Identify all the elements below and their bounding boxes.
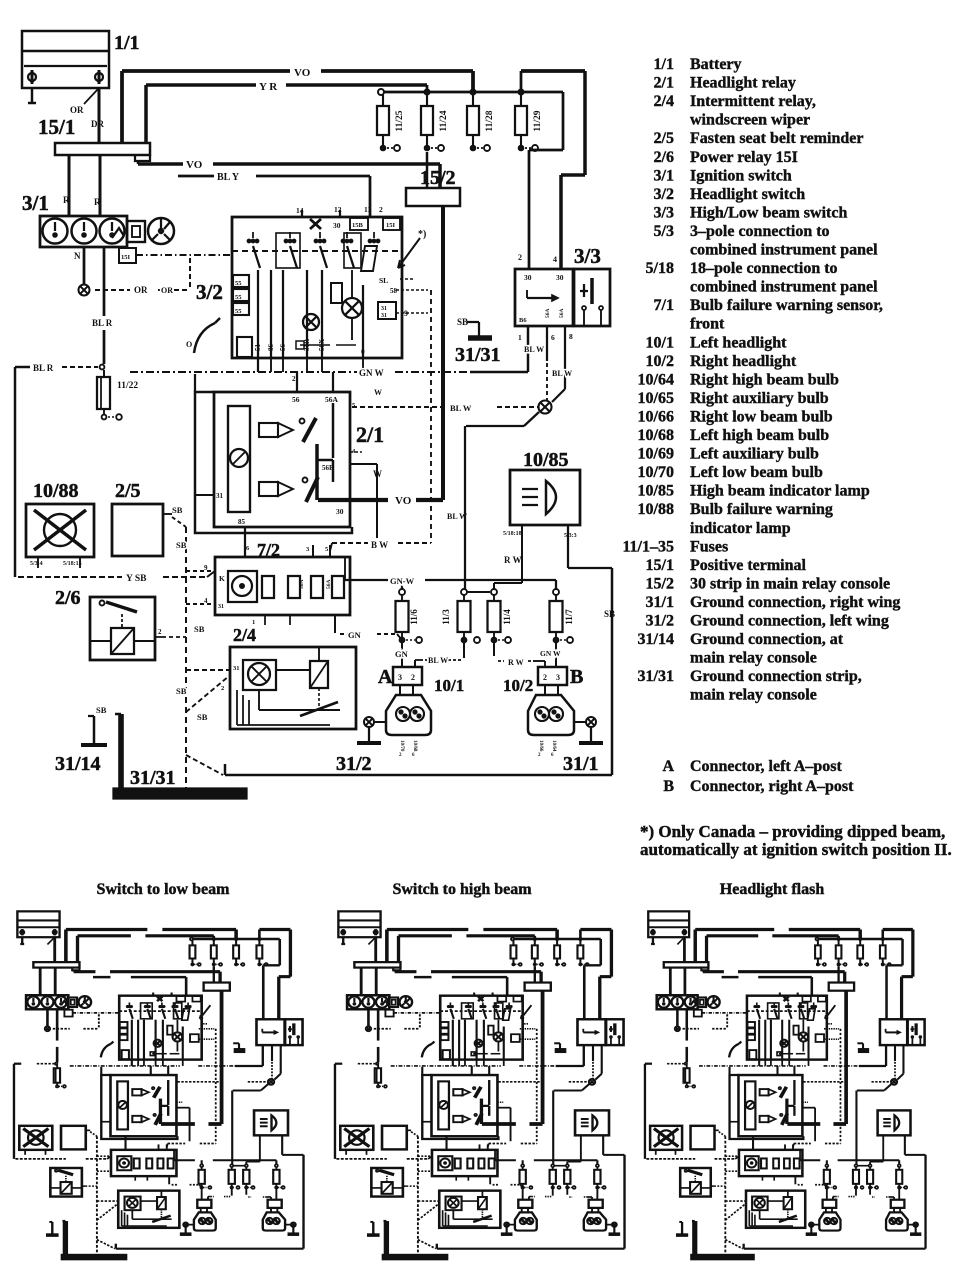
svg-text:GN W: GN W — [359, 368, 384, 378]
svg-text:5/3: 5/3 — [654, 223, 674, 240]
svg-text:Battery: Battery — [690, 56, 742, 73]
svg-text:VO: VO — [186, 159, 203, 171]
svg-text:2/5: 2/5 — [654, 130, 674, 147]
svg-text:High/Low beam switch: High/Low beam switch — [690, 204, 847, 221]
svg-text:31: 31 — [381, 313, 387, 319]
svg-text:BL R: BL R — [33, 363, 54, 373]
svg-text:SL: SL — [379, 276, 388, 285]
svg-text:indicator lamp: indicator lamp — [690, 520, 791, 537]
svg-text:11/6: 11/6 — [409, 609, 419, 625]
svg-text:Connector, right A–post: Connector, right A–post — [690, 778, 854, 795]
svg-text:3/3: 3/3 — [654, 204, 674, 221]
svg-text:11/24: 11/24 — [439, 110, 449, 131]
svg-text:GN-W: GN-W — [390, 576, 415, 586]
svg-text:main relay console: main relay console — [690, 650, 817, 667]
svg-text:Fasten seat belt reminder: Fasten seat belt reminder — [690, 130, 863, 147]
svg-text:56A: 56A — [299, 580, 305, 590]
svg-text:10/68: 10/68 — [412, 740, 417, 752]
svg-text:Ground connection, right wing: Ground connection, right wing — [690, 594, 900, 611]
svg-text:Bulb failure warning sensor,: Bulb failure warning sensor, — [690, 297, 883, 314]
svg-text:Headlight flash: Headlight flash — [720, 881, 825, 898]
svg-text:Connector, left A–post: Connector, left A–post — [690, 758, 843, 775]
svg-text:56A: 56A — [326, 580, 332, 590]
svg-text:main relay console: main relay console — [690, 687, 817, 704]
svg-text:B6: B6 — [519, 317, 527, 324]
svg-text:10/1: 10/1 — [434, 676, 464, 695]
svg-text:6: 6 — [551, 333, 555, 342]
svg-text:Left low beam bulb: Left low beam bulb — [690, 464, 823, 481]
svg-text:SB: SB — [197, 712, 208, 722]
svg-text:automatically at ignition swit: automatically at ignition switch positio… — [640, 840, 952, 859]
svg-text:5: 5 — [325, 546, 329, 553]
svg-text:Switch to high beam: Switch to high beam — [392, 881, 532, 898]
svg-text:15/2: 15/2 — [646, 575, 674, 592]
svg-text:31/2: 31/2 — [336, 753, 372, 775]
svg-text:30: 30 — [336, 507, 344, 516]
svg-text:10/1: 10/1 — [646, 334, 674, 351]
svg-text:55: 55 — [235, 280, 242, 287]
svg-text:Y SB: Y SB — [126, 574, 147, 584]
svg-text:Ground connection strip,: Ground connection strip, — [690, 668, 862, 685]
svg-text:2: 2 — [538, 753, 541, 758]
svg-text:10/65: 10/65 — [638, 390, 674, 407]
svg-text:2/1: 2/1 — [356, 422, 384, 447]
svg-text:3/1: 3/1 — [654, 167, 674, 184]
svg-text:SB: SB — [176, 540, 187, 550]
svg-text:R W: R W — [508, 658, 524, 667]
svg-text:front: front — [690, 316, 725, 333]
svg-text:Intermittent relay,: Intermittent relay, — [690, 93, 816, 110]
svg-text:8: 8 — [569, 332, 573, 341]
svg-text:BL W: BL W — [447, 512, 467, 521]
svg-text:R: R — [63, 195, 70, 205]
svg-text:4: 4 — [553, 255, 557, 264]
svg-text:1: 1 — [252, 619, 255, 626]
svg-text:11/1–35: 11/1–35 — [622, 538, 674, 555]
svg-text:10/66: 10/66 — [538, 740, 543, 752]
svg-text:15/2: 15/2 — [420, 167, 456, 189]
svg-text:A: A — [662, 758, 674, 775]
svg-text:10/70: 10/70 — [399, 740, 404, 752]
svg-text:SB: SB — [96, 705, 107, 715]
svg-text:BL W: BL W — [524, 345, 544, 354]
svg-text:O: O — [186, 340, 192, 349]
svg-text:10/69: 10/69 — [638, 446, 674, 463]
svg-text:Power relay 15I: Power relay 15I — [690, 149, 798, 166]
svg-text:31/31: 31/31 — [638, 668, 674, 685]
svg-text:Ground connection, left wing: Ground connection, left wing — [690, 613, 889, 630]
svg-text:1/1: 1/1 — [114, 32, 140, 54]
svg-text:B W: B W — [371, 540, 388, 550]
svg-text:18–pole connection to: 18–pole connection to — [690, 260, 838, 277]
svg-text:10/70: 10/70 — [638, 464, 674, 481]
svg-text:6: 6 — [551, 753, 554, 758]
svg-text:2/1: 2/1 — [654, 75, 674, 92]
svg-text:15/1: 15/1 — [646, 557, 674, 574]
svg-text:56A: 56A — [559, 309, 565, 319]
svg-text:5/3:4: 5/3:4 — [30, 561, 43, 567]
svg-text:31/2: 31/2 — [646, 613, 674, 630]
svg-text:Right low beam bulb: Right low beam bulb — [690, 409, 833, 426]
svg-text:GN: GN — [348, 630, 362, 640]
svg-text:K: K — [219, 574, 225, 583]
svg-text:3/2: 3/2 — [654, 186, 674, 203]
svg-text:10/88: 10/88 — [33, 480, 79, 502]
svg-text:GN: GN — [395, 649, 409, 659]
svg-text:BL Y: BL Y — [217, 172, 240, 183]
svg-text:10/64: 10/64 — [638, 371, 674, 388]
svg-text:2/5: 2/5 — [115, 480, 141, 502]
svg-text:2: 2 — [292, 375, 296, 383]
svg-text:R: R — [94, 197, 101, 207]
svg-text:5/18:18: 5/18:18 — [503, 531, 522, 537]
svg-text:31: 31 — [381, 306, 387, 312]
svg-text:7/2: 7/2 — [257, 540, 280, 560]
svg-text:10/64: 10/64 — [551, 740, 556, 752]
svg-text:OR: OR — [161, 286, 173, 295]
svg-text:86: 86 — [267, 344, 275, 352]
svg-text:High beam indicator lamp: High beam indicator lamp — [690, 483, 870, 500]
svg-text:BL W: BL W — [428, 656, 448, 665]
svg-text:30: 30 — [524, 273, 532, 282]
svg-text:1: 1 — [518, 333, 522, 342]
svg-text:SB: SB — [457, 317, 468, 327]
svg-text:31/31: 31/31 — [130, 767, 176, 789]
svg-text:Left auxiliary bulb: Left auxiliary bulb — [690, 446, 819, 463]
svg-text:VO: VO — [395, 495, 412, 507]
svg-text:31R: 31R — [303, 338, 311, 351]
svg-text:15B: 15B — [352, 222, 364, 229]
svg-text:B: B — [663, 778, 674, 795]
svg-text:85: 85 — [238, 518, 246, 526]
svg-text:combined instrument panel: combined instrument panel — [690, 242, 878, 259]
svg-text:SB: SB — [176, 686, 187, 696]
svg-text:2/4: 2/4 — [233, 625, 256, 645]
svg-text:W: W — [373, 469, 382, 479]
svg-text:3: 3 — [398, 673, 402, 682]
svg-text:Ignition switch: Ignition switch — [690, 167, 792, 184]
svg-text:31/14: 31/14 — [638, 631, 674, 648]
svg-text:2: 2 — [221, 685, 224, 692]
svg-text:combined instrument panel: combined instrument panel — [690, 279, 878, 296]
svg-text:10/2: 10/2 — [646, 353, 674, 370]
svg-text:OR: OR — [70, 105, 84, 115]
svg-text:58X: 58X — [318, 339, 326, 351]
svg-text:3/2: 3/2 — [196, 280, 223, 304]
svg-text:31/14: 31/14 — [55, 753, 101, 775]
svg-text:3/3: 3/3 — [574, 244, 601, 268]
svg-text:Positive terminal: Positive terminal — [690, 557, 807, 574]
svg-text:56A: 56A — [325, 395, 339, 404]
svg-text:SB: SB — [172, 505, 183, 515]
svg-text:14: 14 — [296, 206, 304, 215]
svg-text:*) Only Canada – providing di: *) Only Canada – providing dipped beam, — [640, 822, 945, 841]
svg-text:11/22: 11/22 — [117, 381, 138, 391]
svg-text:DR: DR — [91, 119, 104, 129]
svg-text:BL W: BL W — [552, 369, 572, 378]
svg-text:31/31: 31/31 — [455, 344, 501, 366]
svg-text:30 strip in main relay console: 30 strip in main relay console — [690, 575, 890, 592]
svg-text:6: 6 — [246, 545, 250, 552]
svg-text:9: 9 — [404, 309, 408, 318]
svg-text:2: 2 — [518, 253, 522, 262]
svg-text:Right auxiliary bulb: Right auxiliary bulb — [690, 390, 829, 407]
svg-text:3/1: 3/1 — [22, 191, 49, 215]
svg-text:31/1: 31/1 — [563, 753, 599, 775]
svg-text:Left headlight: Left headlight — [690, 334, 787, 351]
svg-text:31: 31 — [216, 492, 224, 500]
svg-text:*): *) — [418, 229, 426, 240]
svg-text:10/85: 10/85 — [523, 449, 569, 471]
svg-text:Ground connection, at: Ground connection, at — [690, 631, 844, 648]
svg-text:56: 56 — [279, 344, 287, 352]
svg-text:Fuses: Fuses — [690, 538, 728, 555]
svg-text:9: 9 — [204, 564, 208, 572]
svg-text:11/25: 11/25 — [395, 110, 405, 131]
svg-text:SB: SB — [604, 609, 615, 619]
svg-text:Y R: Y R — [259, 81, 278, 93]
svg-text:58: 58 — [390, 287, 398, 295]
svg-text:Headlight switch: Headlight switch — [690, 186, 805, 203]
svg-text:2: 2 — [411, 673, 415, 682]
svg-text:3: 3 — [306, 546, 310, 553]
svg-text:3–pole connection to: 3–pole connection to — [690, 223, 830, 240]
svg-text:15/1: 15/1 — [38, 115, 75, 139]
svg-text:B: B — [570, 666, 583, 688]
svg-text:55: 55 — [235, 294, 242, 301]
svg-text:31: 31 — [233, 665, 240, 672]
svg-text:N: N — [74, 251, 81, 261]
svg-text:0: 0 — [361, 347, 365, 356]
svg-text:2/4: 2/4 — [654, 93, 674, 110]
svg-text:15I: 15I — [386, 222, 396, 229]
svg-text:11/3: 11/3 — [441, 609, 451, 625]
svg-text:6: 6 — [412, 753, 415, 758]
svg-text:windscreen wiper: windscreen wiper — [690, 112, 810, 129]
svg-text:7/1: 7/1 — [654, 297, 674, 314]
svg-text:15I: 15I — [121, 254, 131, 261]
svg-text:10/66: 10/66 — [638, 409, 674, 426]
svg-text:5/3:3: 5/3:3 — [564, 533, 577, 539]
svg-text:5: 5 — [352, 402, 356, 409]
svg-text:2/6: 2/6 — [55, 587, 81, 609]
svg-text:2: 2 — [399, 753, 402, 758]
svg-text:11/28: 11/28 — [485, 110, 495, 131]
svg-text:Bulb failure warning: Bulb failure warning — [690, 501, 833, 518]
svg-text:Switch to low beam: Switch to low beam — [97, 881, 231, 898]
svg-text:2: 2 — [158, 628, 162, 636]
svg-text:BL R: BL R — [92, 318, 113, 328]
svg-text:2: 2 — [379, 205, 383, 214]
svg-text:11/29: 11/29 — [533, 110, 543, 131]
svg-text:Right headlight: Right headlight — [690, 353, 797, 370]
svg-text:11: 11 — [364, 205, 371, 214]
svg-text:R W: R W — [504, 555, 522, 565]
svg-text:SB: SB — [194, 624, 205, 634]
svg-text:12: 12 — [334, 205, 342, 214]
svg-text:OR: OR — [134, 285, 148, 295]
svg-text:11/7: 11/7 — [564, 609, 574, 625]
svg-text:30: 30 — [333, 221, 341, 230]
svg-text:51: 51 — [254, 344, 262, 352]
svg-text:5/18:15: 5/18:15 — [63, 561, 82, 567]
svg-text:VO: VO — [294, 67, 311, 79]
svg-text:GN W: GN W — [540, 649, 561, 658]
svg-text:2/6: 2/6 — [654, 149, 674, 166]
svg-text:30: 30 — [556, 273, 564, 282]
svg-text:A: A — [378, 666, 393, 688]
svg-text:31: 31 — [218, 604, 224, 610]
svg-text:56A: 56A — [545, 309, 551, 319]
svg-text:56: 56 — [292, 395, 300, 404]
svg-text:56B: 56B — [322, 464, 334, 472]
svg-text:1/1: 1/1 — [654, 56, 674, 73]
svg-text:4: 4 — [204, 597, 208, 605]
svg-text:BL W: BL W — [450, 403, 472, 413]
svg-text:3: 3 — [556, 673, 560, 682]
svg-text:10/85: 10/85 — [638, 483, 674, 500]
svg-text:10/2: 10/2 — [503, 676, 533, 695]
svg-text:5/18: 5/18 — [646, 260, 674, 277]
svg-text:11/4: 11/4 — [502, 609, 512, 625]
svg-text:W: W — [374, 388, 382, 397]
svg-text:2: 2 — [543, 673, 547, 682]
svg-text:10/68: 10/68 — [638, 427, 674, 444]
svg-text:55: 55 — [235, 308, 242, 315]
svg-text:31/1: 31/1 — [646, 594, 674, 611]
svg-text:Headlight relay: Headlight relay — [690, 75, 796, 92]
svg-text:10/88: 10/88 — [638, 501, 674, 518]
svg-text:Left high beam bulb: Left high beam bulb — [690, 427, 829, 444]
svg-text:Right high beam bulb: Right high beam bulb — [690, 371, 839, 388]
